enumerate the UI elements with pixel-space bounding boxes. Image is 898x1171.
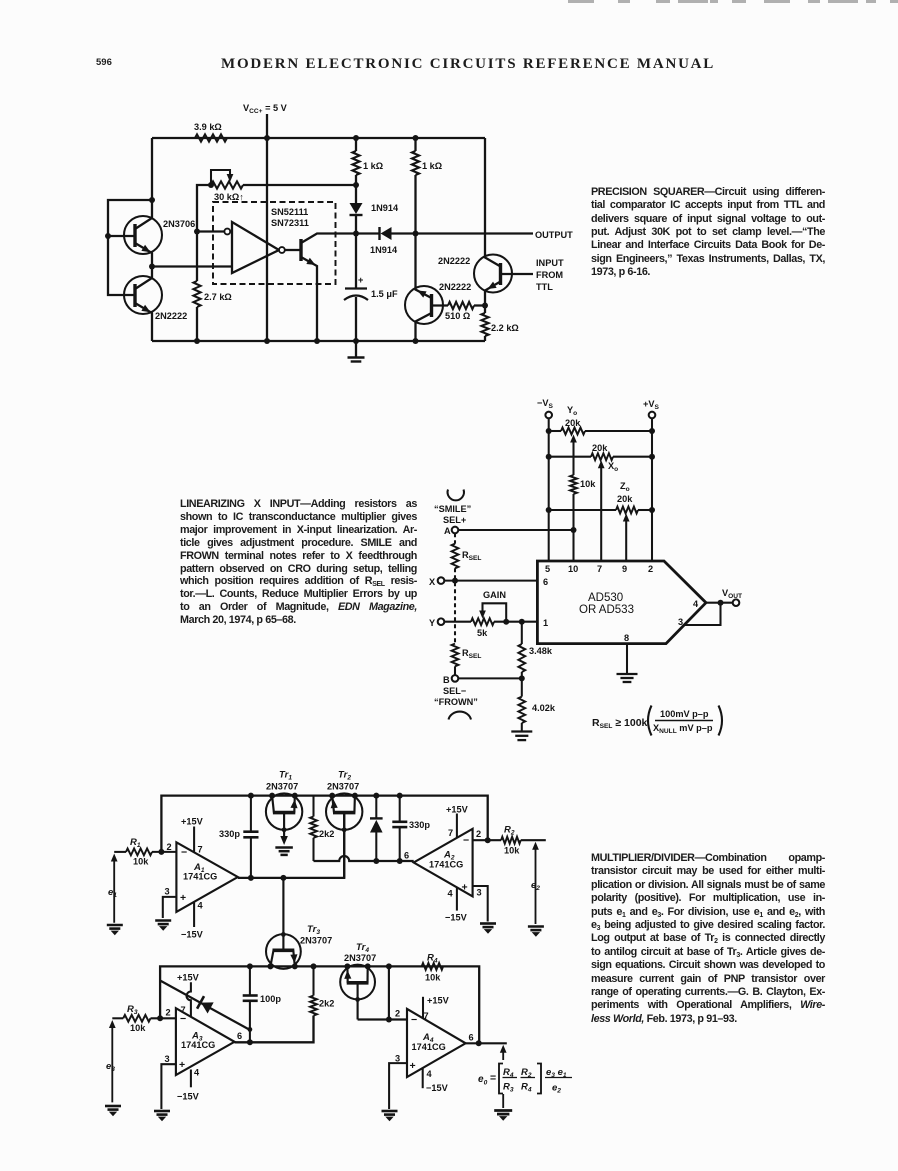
svg-text:510 Ω: 510 Ω (445, 311, 470, 321)
ground e3 (105, 1106, 121, 1110)
wire rail mid (160, 966, 479, 1043)
svg-text:2N2222: 2N2222 (439, 282, 471, 292)
svg-text:3.48k: 3.48k (529, 646, 553, 656)
comparator dashed box (213, 202, 336, 284)
transistor Q1 2N3706 (124, 200, 162, 267)
svg-text:2: 2 (395, 1009, 400, 1019)
svg-text:R2: R2 (504, 825, 515, 837)
wire A4 output (466, 1042, 507, 1044)
svg-text:AD530: AD530 (588, 592, 623, 604)
svg-text:Xo: Xo (608, 461, 618, 473)
svg-text:3.9 kΩ: 3.9 kΩ (194, 122, 222, 132)
svg-text:R4: R4 (427, 953, 438, 965)
pin4 -15V A1 (193, 903, 195, 928)
svg-text:3: 3 (678, 617, 683, 627)
potentiometer 30k (211, 181, 243, 188)
wire pin3 feedback (684, 603, 721, 625)
resistor 510 (448, 302, 474, 309)
diode 1N914 horizontal (356, 232, 379, 234)
pin4 -15V A2 (456, 888, 458, 911)
svg-text:R3: R3 (127, 1004, 138, 1016)
svg-text:R4: R4 (521, 1082, 532, 1094)
svg-text:1N914: 1N914 (371, 203, 399, 213)
svg-text:+: + (180, 892, 186, 904)
op-amp A3 1741CG (176, 1008, 235, 1075)
svg-text:e0: e0 (478, 1074, 488, 1087)
op-amp comparator triangle (232, 222, 279, 273)
svg-text:2N3707: 2N3707 (300, 936, 332, 946)
svg-text:+15V: +15V (446, 805, 469, 815)
svg-text:XNULL mV p–p: XNULL mV p–p (653, 723, 713, 735)
wire VCC drop through comparator (266, 138, 268, 341)
wire comparator noninv input (152, 265, 232, 267)
svg-text:1 kΩ: 1 kΩ (363, 161, 383, 171)
wire A1 output (238, 812, 344, 878)
wire right rail to pin2 (651, 431, 653, 562)
ground A1 pin3 (155, 921, 171, 925)
svg-text:−15V: −15V (181, 930, 204, 940)
wire bottom rail (152, 340, 485, 342)
wire X input pin6 (444, 580, 538, 582)
svg-text:330p: 330p (219, 829, 240, 839)
resistor 3.48k (521, 622, 523, 644)
ground A2 pin3 (480, 924, 496, 928)
ground A3 pin3 (154, 1111, 170, 1115)
node VCC supply (266, 114, 268, 138)
resistor R2 10k (473, 839, 502, 841)
svg-text:4: 4 (693, 599, 699, 609)
svg-text:4.02k: 4.02k (532, 703, 556, 713)
transistor Q4 2N2222 (474, 138, 533, 306)
ground e1 (107, 925, 123, 929)
svg-text:4: 4 (448, 889, 454, 899)
wire pot to divider (197, 185, 211, 232)
wire left rail to pin5 (548, 431, 550, 562)
svg-text:Yo: Yo (567, 405, 577, 417)
svg-text:20k: 20k (565, 418, 581, 428)
svg-text:10k: 10k (504, 846, 520, 856)
node Tr4 branch (386, 963, 392, 969)
svg-text:X: X (429, 577, 436, 587)
wire top rail VCC (152, 137, 485, 139)
pin7 +15V A4 (422, 997, 424, 1019)
svg-text:INPUT: INPUT (536, 258, 564, 268)
svg-text:7: 7 (424, 1011, 429, 1021)
svg-text:20k: 20k (592, 443, 608, 453)
svg-text:R3: R3 (503, 1082, 514, 1094)
op-amp A1 1741CG (176, 842, 237, 912)
svg-text:e1: e1 (108, 887, 117, 899)
resistor 3.9k (195, 134, 227, 141)
transistor Q2 2N2222 (124, 267, 162, 342)
pin7 +15V A2 (456, 814, 458, 838)
svg-text:SEL−: SEL− (443, 686, 466, 696)
svg-text:1: 1 (543, 618, 548, 628)
svg-text:2N2222: 2N2222 (438, 256, 470, 266)
svg-text:SN52111: SN52111 (271, 207, 308, 217)
wire left rail (151, 138, 153, 200)
node output (706, 602, 733, 604)
input e2 arrow (535, 846, 537, 924)
svg-text:−15V: −15V (177, 1092, 200, 1102)
svg-text:2: 2 (648, 564, 653, 574)
svg-text:100p: 100p (260, 994, 281, 1004)
wire B to divider (458, 677, 522, 679)
potentiometer Zo 20k (549, 509, 616, 511)
potentiometer Xo 20k (549, 456, 591, 458)
svg-text:−: − (411, 1014, 417, 1026)
svg-text:10: 10 (568, 564, 578, 574)
resistor 2k2 upper (312, 796, 314, 817)
transistor Tr1 2N3707 (266, 793, 302, 829)
svg-text:6: 6 (543, 577, 548, 587)
wire A4 noninv to ground (389, 1063, 407, 1109)
resistor 1k left (355, 138, 357, 151)
pin4 -15V A4 (422, 1069, 424, 1089)
svg-text:330p: 330p (409, 820, 430, 830)
svg-text:1 kΩ: 1 kΩ (422, 161, 442, 171)
capacitor 330p left (250, 796, 252, 832)
svg-text:4: 4 (194, 1068, 200, 1078)
transistor comparator output stage (285, 234, 354, 342)
svg-text:20k: 20k (617, 494, 633, 504)
node A wiper junction (458, 529, 573, 531)
node output left (353, 231, 359, 237)
resistor R1 10k (114, 851, 126, 853)
resistor 1k right (414, 138, 416, 151)
svg-text:GAIN: GAIN (483, 590, 506, 600)
ground e0 (494, 1111, 512, 1115)
svg-text:2.2 kΩ: 2.2 kΩ (491, 323, 519, 333)
transistor Tr4 2N3707 (340, 965, 375, 1000)
svg-text:−: − (181, 846, 187, 858)
wire A2 output with hop (314, 856, 414, 861)
wire Tr2 base (343, 813, 345, 878)
svg-text:SN72311: SN72311 (271, 218, 309, 228)
svg-text:7: 7 (198, 845, 203, 855)
svg-text:10k: 10k (425, 973, 441, 983)
resistor 10k (570, 475, 577, 494)
wire A1 out to Tr3 base (282, 878, 284, 950)
svg-text:+15V: +15V (427, 996, 450, 1006)
svg-text:5: 5 (545, 564, 550, 574)
resistor 2.2k (484, 306, 486, 314)
diode feedback A3 (160, 981, 249, 1030)
ground A4 pin3 (382, 1111, 398, 1115)
node comparator inv input (194, 229, 200, 235)
svg-text:2N3706: 2N3706 (163, 219, 195, 229)
wire base bypass left (108, 200, 152, 295)
pin4 -15V A3 (190, 1070, 192, 1088)
capacitor 100p (249, 966, 251, 995)
node A3 inv input (157, 1015, 163, 1021)
svg-text:−15V: −15V (426, 1083, 449, 1093)
node A1 inv input (158, 849, 164, 855)
node output right (413, 231, 419, 237)
svg-text:Y: Y (429, 618, 435, 628)
svg-text:RSEL: RSEL (462, 648, 481, 660)
svg-text:R1: R1 (130, 837, 141, 849)
resistor 4.02k (521, 678, 523, 696)
transistor Tr3 2N3707 (266, 934, 301, 969)
svg-text:OR AD533: OR AD533 (579, 604, 634, 616)
dashed select wire (454, 568, 456, 643)
svg-text:3: 3 (165, 887, 170, 897)
svg-text:2k2: 2k2 (319, 999, 334, 1009)
svg-text:+15V: +15V (181, 817, 204, 827)
svg-text:4: 4 (198, 901, 204, 911)
frown arc (449, 712, 472, 720)
svg-text:Zo: Zo (620, 481, 630, 493)
svg-text:2N3707: 2N3707 (266, 782, 298, 792)
svg-text:−VS: −VS (537, 398, 554, 410)
svg-text:+15V: +15V (177, 973, 200, 983)
wire Tr4 base to A4 (358, 1018, 407, 1020)
terminal Vout (733, 599, 740, 606)
svg-text:−15V: −15V (445, 913, 468, 923)
resistor R4 10k (422, 963, 443, 970)
diode clamp (375, 796, 377, 818)
svg-text:FROM: FROM (536, 270, 563, 280)
wire feedback rail top (161, 796, 487, 852)
svg-text:4: 4 (427, 1069, 433, 1079)
svg-text:TTL: TTL (536, 282, 553, 292)
potentiometer gain 5k (444, 621, 471, 623)
svg-text:1N914: 1N914 (370, 245, 398, 255)
op-amp A2 1741CG (414, 829, 473, 897)
svg-text:7: 7 (597, 564, 602, 574)
svg-text:VCC+ = 5 V: VCC+ = 5 V (243, 103, 288, 115)
svg-text:1741CG: 1741CG (181, 1040, 215, 1050)
pin7 +15V A3 with hop (186, 982, 190, 1016)
diode 1N914 vertical (355, 185, 357, 203)
ground Tr1 (275, 848, 293, 855)
svg-text:“SMILE”: “SMILE” (434, 504, 471, 514)
svg-text:e3: e3 (106, 1061, 115, 1073)
svg-text:VOUT: VOUT (722, 588, 742, 600)
svg-text:3: 3 (477, 888, 482, 898)
pin8 ground (626, 644, 628, 674)
capacitor 1.5uF (355, 234, 357, 289)
svg-text:2.7 kΩ: 2.7 kΩ (204, 292, 232, 302)
transistor Q3 2N2222 (413, 338, 419, 344)
svg-text:3: 3 (395, 1054, 400, 1064)
svg-text:3: 3 (165, 1054, 170, 1064)
capacitor 330p right (399, 796, 401, 822)
svg-text:2N3707: 2N3707 (344, 953, 376, 963)
svg-text:10k: 10k (130, 1023, 146, 1033)
svg-text:“FROWN”: “FROWN” (434, 697, 478, 707)
svg-text:e2: e2 (552, 1083, 561, 1095)
svg-text:Tr1: Tr1 (279, 770, 292, 782)
svg-text:7: 7 (181, 1005, 186, 1015)
svg-text:e2: e2 (531, 880, 540, 892)
svg-text:2: 2 (167, 842, 172, 852)
svg-text:B: B (443, 675, 450, 685)
input e1 arrow (113, 858, 115, 923)
svg-text:1741CG: 1741CG (429, 860, 463, 870)
svg-text:1741CG: 1741CG (183, 872, 217, 882)
potentiometer Yo 20k (549, 430, 561, 432)
svg-text:RSEL: RSEL (462, 550, 481, 562)
resistor Rsel lower (452, 644, 459, 667)
ground (511, 732, 532, 741)
wire A3 noninv to ground (161, 1064, 176, 1109)
svg-text:2: 2 (166, 1008, 171, 1018)
terminal A (452, 527, 459, 534)
svg-text:9: 9 (622, 564, 627, 574)
smile arc (448, 490, 464, 501)
resistor R3 10k (112, 1017, 123, 1019)
svg-text:6: 6 (404, 851, 409, 861)
ground e2 (528, 927, 544, 931)
node Q1 collector (149, 197, 155, 203)
svg-text:Tr2: Tr2 (338, 770, 351, 782)
resistor 2.7k (196, 232, 198, 282)
svg-text:A: A (444, 526, 451, 536)
svg-text:+: + (179, 1059, 185, 1071)
svg-text:10k: 10k (133, 857, 149, 867)
op-amp A4 1741CG (407, 1009, 466, 1077)
svg-text:+: + (358, 275, 363, 285)
svg-text:7: 7 (448, 828, 453, 838)
IC AD530 body (537, 561, 706, 644)
svg-text:100mV p–p: 100mV p–p (660, 709, 709, 719)
output e0 arrow (502, 1049, 504, 1060)
svg-text:RSEL ≥ 100k: RSEL ≥ 100k (592, 717, 648, 730)
svg-text:6: 6 (237, 1031, 242, 1041)
wire A2 noninv to ground (473, 886, 488, 922)
wire A1 noninv to ground (163, 897, 177, 918)
svg-text:2: 2 (476, 829, 481, 839)
svg-text:−: − (463, 835, 469, 847)
svg-text:30 kΩ↑: 30 kΩ↑ (214, 192, 244, 202)
svg-text:+VS: +VS (643, 399, 660, 411)
resistor 2k2 lower (312, 966, 314, 995)
wire Q1 base (108, 235, 135, 237)
svg-text:6: 6 (469, 1033, 474, 1043)
svg-text:2N2222: 2N2222 (155, 311, 187, 321)
svg-text:OUTPUT: OUTPUT (535, 230, 573, 240)
svg-text:5k: 5k (477, 628, 488, 638)
svg-text:10k: 10k (580, 479, 596, 489)
pin7 +15V A1 (193, 827, 195, 852)
svg-text:+: + (462, 882, 468, 894)
svg-text:2N3707: 2N3707 (327, 782, 359, 792)
svg-text:2k2: 2k2 (319, 829, 334, 839)
svg-text:SEL+: SEL+ (443, 515, 466, 525)
ground (355, 341, 357, 357)
svg-text:Tr3: Tr3 (307, 924, 320, 936)
node Q1 emitter / Q2 collector (149, 264, 155, 270)
transistor Tr2 2N3707 (326, 793, 362, 829)
svg-text:+: + (410, 1060, 416, 1072)
resistor Rsel upper (454, 533, 456, 543)
svg-text:1.5 μF: 1.5 μF (371, 289, 398, 299)
svg-text:8: 8 (624, 633, 629, 643)
wire A3 output (235, 1016, 314, 1043)
node base tie (105, 233, 111, 239)
svg-text:=: = (490, 1072, 496, 1084)
svg-text:1741CG: 1741CG (412, 1042, 446, 1052)
node emitter junction (482, 303, 488, 309)
wire 30k to 1k junction (243, 184, 356, 186)
node 3.48k top (519, 619, 525, 625)
input e3 arrow (111, 1025, 113, 1103)
